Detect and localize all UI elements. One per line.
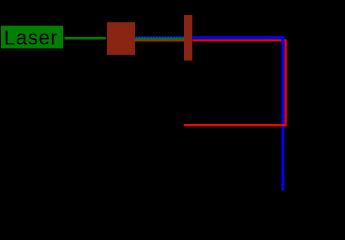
beamsplitter bar xyxy=(184,15,192,61)
wire blue wavy beam xyxy=(135,36,184,39)
wire green beam xyxy=(66,37,105,40)
wire green wavy beam xyxy=(135,38,184,40)
wire blue beam xyxy=(193,37,283,190)
svg-text:Laser: Laser xyxy=(4,28,58,50)
modulator box xyxy=(107,22,135,55)
wire red wavy beam xyxy=(135,40,184,42)
wire red beam upper xyxy=(193,40,286,125)
wire red beam lower xyxy=(184,124,287,126)
laser box xyxy=(1,26,63,49)
